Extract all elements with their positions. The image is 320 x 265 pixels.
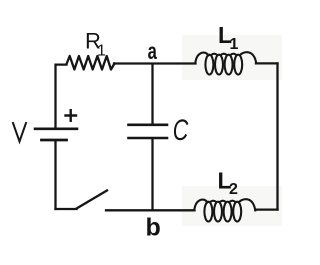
light gray photo patch behind L1 — [182, 35, 282, 80]
svg-text:b: b — [146, 214, 161, 242]
wire L2 to right rail — [255, 208, 277, 210]
wire battery bottom lead — [54, 142, 56, 210]
svg-text:2: 2 — [229, 181, 238, 198]
wire right vertical rail — [276, 64, 278, 210]
switch blade — [77, 191, 108, 209]
wire L1 to right rail — [256, 62, 278, 64]
svg-text:1: 1 — [97, 43, 106, 60]
capacitor C plates — [129, 124, 168, 127]
plus sign of battery — [66, 110, 77, 121]
wire capacitor bottom lead — [151, 140, 153, 210]
wire bottom (switch to L2) through node b — [106, 209, 195, 211]
svg-text:1: 1 — [230, 36, 239, 53]
wire left vertical (V source top lead) — [56, 65, 67, 128]
switch stub — [56, 208, 77, 210]
wire top (R1 to L1) through node a — [114, 62, 196, 64]
resistor R1 — [67, 56, 115, 70]
inductor L1 — [195, 52, 256, 74]
inductor L2 — [194, 199, 255, 221]
svg-text:a: a — [148, 40, 158, 65]
light gray photo patch behind L2 — [182, 186, 282, 226]
label V — [13, 123, 26, 142]
battery V long plate — [35, 128, 77, 131]
svg-text:C: C — [173, 112, 189, 146]
battery V short plate — [42, 139, 67, 142]
wire capacitor top lead — [151, 64, 153, 124]
